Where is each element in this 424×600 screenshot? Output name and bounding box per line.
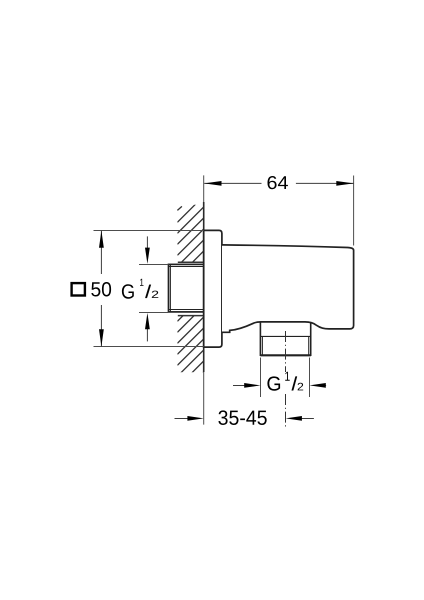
dimension line 64 bbox=[204, 182, 353, 184]
right arrow bbox=[300, 418, 314, 420]
upper arrow bbox=[146, 236, 148, 252]
label 64 bbox=[268, 176, 288, 189]
label 50 bbox=[91, 282, 111, 297]
wall surface line (bold section) bbox=[203, 202, 205, 372]
right arrow bbox=[322, 385, 326, 387]
extension line left bbox=[260, 358, 262, 398]
extension line right bbox=[309, 358, 311, 398]
arrowheads 50 bbox=[99, 231, 104, 347]
arrowheads 64 bbox=[204, 181, 353, 186]
extension line bottom bbox=[139, 312, 168, 314]
left arrow bbox=[175, 418, 190, 420]
body of wall union bbox=[222, 245, 354, 332]
right extension line bbox=[353, 176, 355, 246]
left arrow bbox=[233, 385, 247, 387]
outlet boss G1/2 (bottom) bbox=[260, 322, 310, 356]
lower arrow bbox=[146, 325, 148, 341]
dimension line bbox=[100, 231, 102, 347]
label 35-45 bbox=[218, 410, 266, 425]
wall surface line (thin full extent) bbox=[203, 175, 205, 424]
wall hatching bbox=[177, 196, 203, 431]
centerline of outlet (dash-dot), gap at G1/2 label bbox=[285, 331, 287, 372]
extension line bottom bbox=[94, 346, 204, 348]
inlet nipple G1/2 (behind wall) bbox=[169, 264, 204, 312]
flange (square 50 escutcheon) bbox=[204, 230, 222, 347]
label G 1/2 bottom bbox=[267, 372, 303, 391]
extension line top bbox=[139, 264, 168, 266]
wall hole bottom edge bbox=[178, 315, 204, 317]
square symbol bbox=[72, 283, 85, 295]
label G 1/2 left bbox=[122, 279, 158, 299]
wall hole top edge bbox=[178, 261, 204, 263]
extension line top bbox=[94, 230, 204, 232]
hatch top fragment bbox=[177, 206, 182, 210]
